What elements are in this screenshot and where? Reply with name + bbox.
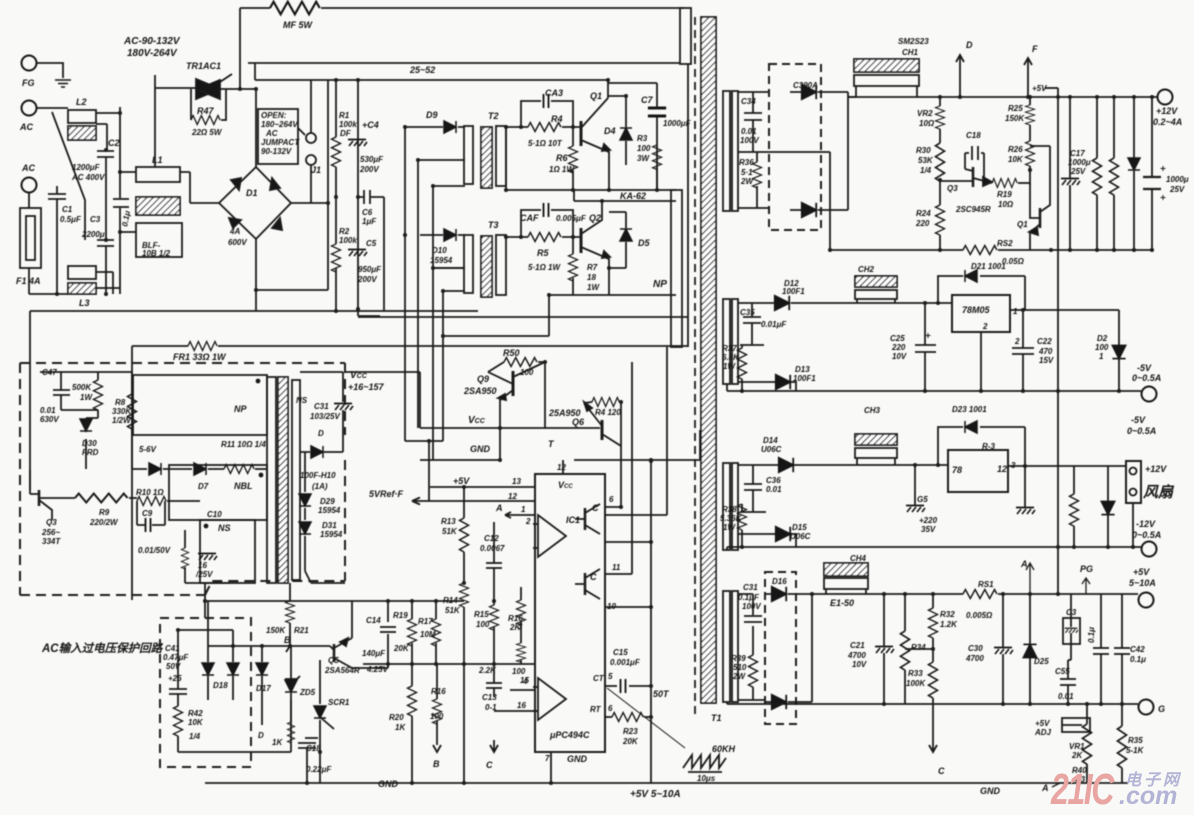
svg-text:R21: R21 (294, 626, 309, 635)
resistor R27 (1093, 97, 1102, 250)
wire S1 return tap (769, 152, 830, 250)
svg-text:2: 2 (982, 322, 988, 331)
svg-text:103/25V: 103/25V (310, 412, 340, 421)
rail S3 (855, 464, 948, 466)
svg-text:1W: 1W (723, 362, 736, 371)
resistor R38 (720, 504, 747, 547)
svg-text:FRD: FRD (82, 448, 99, 457)
resistor R50 (488, 348, 545, 377)
transformer T2 (464, 111, 506, 188)
svg-text:C31: C31 (743, 583, 758, 592)
resistor R2 (332, 197, 358, 311)
resistor R7 (569, 237, 601, 295)
junction nodes IC (176, 360, 653, 785)
wire Q5 emitter bus (352, 601, 388, 668)
diode D24 (1101, 466, 1114, 547)
svg-text:12: 12 (997, 464, 1007, 474)
svg-text:PG: PG (1080, 564, 1093, 574)
svg-text:RT: RT (590, 705, 602, 714)
svg-text:5·1Ω 10T: 5·1Ω 10T (528, 139, 563, 148)
svg-text:11: 11 (612, 563, 621, 572)
svg-text:51K: 51K (445, 606, 461, 615)
wire 5VRef pin12 (369, 489, 535, 505)
svg-text:+5V 5~10A: +5V 5~10A (630, 789, 681, 800)
svg-text:150K: 150K (1005, 114, 1025, 123)
svg-text:2: 2 (1014, 337, 1020, 346)
wire B node (208, 646, 290, 652)
svg-text:D: D (258, 731, 264, 740)
net F arrow (1024, 44, 1038, 97)
wire +5V pin13 (430, 477, 535, 487)
svg-text:10K: 10K (1008, 155, 1024, 164)
label -12V (1132, 519, 1161, 540)
winding S1 (723, 91, 738, 211)
resistor R33 (905, 649, 945, 776)
svg-text:2W: 2W (732, 672, 746, 681)
wire triac right (220, 8, 256, 89)
terminal -5V (1132, 363, 1161, 402)
svg-text:3: 3 (518, 622, 523, 631)
svg-text:+C4: +C4 (362, 120, 379, 130)
svg-text:D14: D14 (763, 436, 778, 445)
terminal AC line1 (19, 101, 37, 133)
diode D18b (227, 646, 239, 700)
svg-text:530μF: 530μF (360, 155, 384, 164)
svg-text:NP: NP (653, 279, 667, 290)
svg-text:R25: R25 (1008, 104, 1023, 113)
resistor R9 (56, 494, 137, 528)
svg-text:10V: 10V (852, 660, 867, 669)
net D arrow (956, 40, 973, 97)
svg-text:CH3: CH3 (864, 406, 881, 415)
svg-text:5·1Ω 1W: 5·1Ω 1W (528, 263, 561, 272)
net PG (1080, 564, 1093, 594)
diode S1 top (790, 85, 848, 99)
svg-text:1: 1 (521, 505, 526, 514)
svg-text:R26: R26 (1008, 145, 1023, 154)
rail S4 (824, 593, 1138, 595)
svg-text:D: D (318, 429, 324, 438)
wire FG to ground (36, 63, 63, 78)
capacitor C17 (1061, 97, 1091, 250)
svg-text:R17: R17 (418, 617, 433, 626)
resistor R4 (506, 114, 581, 148)
svg-text:20K: 20K (393, 644, 410, 653)
svg-text:CH2: CH2 (858, 265, 875, 274)
svg-text:C15: C15 (613, 648, 628, 657)
svg-text:C12: C12 (484, 534, 499, 543)
diode D5 (609, 212, 650, 268)
resistor R20 (389, 664, 417, 783)
wire y664 bus (363, 663, 535, 665)
jumper J1 terminals (298, 80, 321, 203)
svg-text:D7: D7 (198, 482, 209, 491)
svg-text:D31: D31 (322, 521, 337, 530)
svg-text:35V: 35V (921, 525, 936, 534)
svg-text:JUMPACT: JUMPACT (261, 138, 300, 147)
svg-text:Q1: Q1 (590, 91, 602, 101)
capacitor C14 (362, 601, 396, 664)
svg-text:T1: T1 (711, 713, 722, 723)
wire S1 join (848, 92, 856, 210)
wire bridge top (255, 89, 257, 167)
svg-text:R23: R23 (623, 727, 638, 736)
svg-text:C: C (592, 503, 599, 513)
svg-text:C22: C22 (1037, 337, 1052, 346)
svg-text:600V: 600V (228, 238, 247, 247)
regulator 78N12 (948, 442, 1016, 492)
svg-text:R34: R34 (911, 643, 926, 652)
svg-text:25V: 25V (1070, 167, 1086, 176)
choke CH3 (855, 406, 897, 465)
svg-text:R30: R30 (916, 146, 931, 155)
svg-text:GND: GND (470, 444, 491, 454)
transistor Q6 (548, 402, 621, 507)
svg-text:C: C (938, 766, 945, 776)
svg-text:500K: 500K (72, 383, 92, 392)
winding S2 (723, 299, 738, 384)
svg-text:25V: 25V (1169, 185, 1185, 194)
resistor R36 (738, 152, 769, 208)
svg-text:0.01: 0.01 (766, 485, 782, 494)
label Vcc +16~157 (348, 370, 385, 392)
svg-text:C34: C34 (741, 97, 756, 106)
svg-text:100: 100 (476, 620, 490, 629)
svg-text:SCR1: SCR1 (328, 698, 350, 707)
wire vertical x328 (256, 80, 328, 290)
capacitor C26b (1016, 466, 1035, 514)
winding S3 (723, 463, 738, 550)
svg-text:470: 470 (1038, 347, 1053, 356)
svg-text:C25: C25 (890, 334, 905, 343)
svg-text:+16~157: +16~157 (348, 382, 385, 392)
resistor R24 (915, 205, 945, 250)
svg-text:NS: NS (296, 396, 308, 405)
svg-text:R47: R47 (197, 106, 215, 116)
svg-text:+5V: +5V (453, 476, 470, 486)
zener D30 FRD (80, 418, 99, 469)
svg-text:50T: 50T (653, 689, 670, 699)
svg-text:6: 6 (608, 704, 613, 713)
svg-text:U06C: U06C (761, 445, 782, 454)
pointer line to sawtooth (607, 688, 685, 748)
svg-text:510: 510 (733, 663, 747, 672)
capacitor C34 (738, 92, 769, 152)
svg-text:1.2K: 1.2K (940, 620, 958, 629)
wire y601 bus (348, 600, 464, 602)
svg-text:T2: T2 (488, 111, 499, 121)
top box lower line (248, 62, 680, 64)
svg-text:100V: 100V (740, 136, 759, 145)
resistor 2.2K (478, 666, 497, 675)
transistor Q3b (940, 167, 992, 214)
svg-text:15: 15 (520, 676, 529, 685)
svg-text:0.01: 0.01 (1058, 692, 1074, 701)
resistor R32 (929, 594, 959, 662)
svg-text:R15: R15 (474, 610, 489, 619)
svg-text:A: A (495, 503, 503, 513)
svg-text:C1: C1 (62, 205, 73, 214)
svg-text:D23 1001: D23 1001 (952, 405, 987, 414)
svg-text:C5: C5 (366, 239, 377, 248)
capacitor C5 electrolytic (348, 239, 382, 284)
svg-text:R10 1Ω: R10 1Ω (136, 488, 164, 497)
junction nodes AC input (55, 78, 360, 313)
svg-text:C14: C14 (366, 616, 381, 625)
inductor L1 (136, 155, 182, 258)
svg-text:100: 100 (637, 144, 651, 153)
svg-text:GND: GND (378, 779, 399, 789)
capacitor C4 electrolytic (348, 120, 384, 174)
svg-text:C3: C3 (90, 215, 101, 224)
wire diagonal to C1 (52, 112, 85, 240)
transformer T1 core (701, 17, 716, 703)
svg-text:.com: .com (1119, 782, 1177, 810)
wire bus x1058 (1057, 88, 1059, 594)
winding NP aux (133, 375, 267, 435)
svg-text:ZD5: ZD5 (299, 688, 316, 697)
svg-text:R39: R39 (731, 654, 746, 663)
svg-text:0.0067: 0.0067 (480, 544, 505, 553)
svg-text:15954: 15954 (318, 506, 341, 515)
resistor R23 pin6 (590, 704, 651, 746)
diode S1 bottom (790, 203, 848, 217)
resistor R34 (901, 594, 927, 704)
wire Vcc top aux (300, 372, 420, 428)
wire x621 (620, 402, 622, 446)
svg-text:6.8K: 6.8K (722, 353, 740, 362)
diode D15 (738, 523, 811, 547)
svg-text:6: 6 (609, 495, 614, 504)
diode D21 loop (938, 262, 1025, 310)
capacitor CAF (520, 203, 587, 237)
svg-text:0.1μ: 0.1μ (1087, 627, 1096, 643)
svg-text:2200μ: 2200μ (81, 230, 105, 239)
svg-text:1W: 1W (723, 523, 736, 532)
resistor R21 (266, 583, 309, 646)
resistor R17 (418, 601, 441, 664)
wire y77 bus (467, 80, 657, 98)
comparator triangle 2 (533, 678, 566, 720)
transistor Q1b (1017, 146, 1050, 250)
svg-text:C7: C7 (641, 95, 653, 105)
svg-text:R42: R42 (188, 709, 203, 718)
svg-text:180~264V: 180~264V (261, 120, 298, 129)
svg-text:NP: NP (234, 404, 247, 414)
diode D23 loop (938, 405, 1025, 466)
svg-text:OPEN:: OPEN: (261, 111, 287, 120)
svg-text:VR2: VR2 (917, 109, 933, 118)
svg-text:7: 7 (545, 754, 550, 763)
capacitor C22 (1012, 310, 1054, 391)
wire T2 tap (418, 159, 465, 161)
zener D11 (1128, 97, 1140, 250)
wire vertical x120 (119, 107, 121, 294)
capacitor C31c (738, 583, 762, 640)
svg-text:1W: 1W (80, 393, 93, 402)
resistor R26 (1008, 141, 1035, 185)
svg-text:R35: R35 (1128, 736, 1143, 745)
junction nodes outputs (740, 95, 1154, 706)
svg-text:R5: R5 (537, 248, 549, 258)
terminal AC line2 (21, 163, 37, 193)
resistor VR2 (917, 97, 945, 143)
resistor FR1 (132, 342, 688, 601)
label +5V tap (1032, 84, 1058, 93)
svg-text:1000μ: 1000μ (1068, 158, 1091, 167)
terminal -12V (1142, 542, 1157, 557)
regulator 78M05 (952, 295, 1018, 332)
svg-text:L3: L3 (79, 298, 90, 308)
net A bottom (1041, 783, 1060, 793)
transformer T3 (464, 220, 506, 297)
svg-text:KA-62: KA-62 (620, 191, 646, 201)
svg-text:R9: R9 (99, 508, 110, 517)
svg-text:0.47μF: 0.47μF (163, 653, 189, 662)
svg-text:TR1AC1: TR1AC1 (186, 61, 221, 71)
diode D31 (299, 508, 345, 583)
svg-text:90-132V: 90-132V (261, 147, 292, 156)
secondary NS right (292, 380, 308, 580)
rail S2 return (727, 384, 1141, 391)
svg-text:R19: R19 (393, 611, 408, 620)
svg-text:2SC945R: 2SC945R (955, 205, 991, 214)
fan connector (1126, 461, 1175, 503)
resistor R3 (637, 134, 662, 190)
diode D aux (300, 420, 343, 491)
resistor R5 (506, 233, 581, 273)
svg-text:220: 220 (891, 343, 906, 352)
wire bridge left (190, 202, 219, 204)
svg-text:53K: 53K (918, 156, 934, 165)
capacitor CA3 (521, 88, 573, 127)
svg-text:A: A (1020, 559, 1028, 569)
svg-text:+12V: +12V (1156, 106, 1178, 116)
svg-text:3W: 3W (637, 154, 650, 163)
dashed box2 (160, 618, 251, 767)
resistor R19b (393, 601, 417, 664)
pin 6 wire (605, 347, 667, 515)
capacitor 0.1 on x120 (113, 199, 132, 227)
svg-text:R7: R7 (587, 263, 598, 272)
wire reg2 gnd (980, 332, 982, 391)
resistor R6 (549, 127, 578, 190)
svg-text:150K: 150K (266, 626, 286, 635)
comparator triangle 1 (533, 515, 566, 557)
wire reg1 out (1010, 309, 1119, 311)
wire Q9 collector bus (544, 362, 546, 428)
junction nodes driver (403, 78, 659, 443)
capacitor C3 box (1063, 594, 1080, 660)
svg-text:D16: D16 (772, 577, 787, 586)
svg-text:+5V: +5V (1035, 719, 1050, 728)
svg-text:4.25V: 4.25V (366, 665, 389, 674)
svg-text:AC: AC (21, 163, 35, 173)
svg-text:AC输入过电压保护回路: AC输入过电压保护回路 (41, 642, 164, 655)
svg-text:15954: 15954 (320, 530, 343, 539)
capacitor C18b (298, 738, 332, 783)
PWM IC1 uPC494C (535, 460, 605, 752)
svg-text:10V: 10V (892, 352, 907, 361)
capacitor C47 (40, 368, 70, 424)
svg-text:MF 5W: MF 5W (283, 20, 314, 30)
wire L1 connections (120, 172, 190, 232)
svg-text:D1: D1 (246, 188, 258, 198)
svg-text:D17: D17 (256, 684, 271, 693)
svg-text:100k: 100k (339, 120, 357, 129)
svg-text:AC 400V: AC 400V (71, 173, 105, 182)
terminal G (1139, 700, 1166, 715)
choke CH1 (854, 37, 929, 97)
aux transformer core (267, 377, 288, 583)
svg-text:51K: 51K (442, 527, 458, 536)
diode D17 (256, 646, 271, 740)
capacitor C41 (163, 630, 189, 706)
capacitor C2 (71, 138, 120, 240)
svg-text:D4: D4 (604, 126, 616, 136)
svg-text:Q6: Q6 (572, 417, 585, 427)
capacitor C21 (847, 594, 894, 704)
winding NS aux (200, 520, 255, 583)
resistor R47 (191, 89, 226, 137)
svg-text:NS: NS (218, 523, 231, 533)
svg-text:21IC: 21IC (1050, 765, 1115, 814)
wire B bus to Q5 (290, 645, 330, 647)
svg-text:200V: 200V (359, 165, 379, 174)
svg-text:E1-50: E1-50 (830, 598, 854, 608)
svg-text:J1: J1 (311, 165, 321, 175)
resistor R1 (332, 80, 358, 197)
svg-text:5·1: 5·1 (741, 168, 753, 177)
svg-text:13: 13 (512, 477, 521, 486)
svg-text:950μF: 950μF (358, 265, 382, 274)
svg-text:T3: T3 (488, 220, 499, 230)
capacitor C7 (641, 83, 692, 190)
svg-text:R8: R8 (115, 398, 126, 407)
capacitor C15 pin5 (593, 648, 670, 699)
wire R26 to Q1 loop (1030, 145, 1050, 147)
capacitor C36 (740, 465, 782, 512)
wire AC1 to L2 (36, 107, 68, 109)
svg-text:334T: 334T (42, 537, 61, 546)
resistor R14 (443, 583, 469, 783)
svg-text:C: C (486, 760, 493, 770)
svg-text:D: D (966, 40, 973, 50)
fuse F1 (16, 193, 41, 294)
svg-text:C35: C35 (740, 308, 755, 317)
svg-text:CT: CT (593, 674, 605, 683)
svg-text:12: 12 (557, 463, 566, 472)
capacitor C18 (965, 131, 984, 183)
svg-text:R2: R2 (339, 227, 350, 236)
svg-text:100k: 100k (339, 236, 357, 245)
terminal +5V (1129, 567, 1156, 608)
svg-text:+5V: +5V (1032, 84, 1047, 93)
resistor R28 (1110, 97, 1119, 250)
svg-text:0.01μF: 0.01μF (761, 320, 787, 329)
wire T2T3 returns (405, 127, 465, 501)
output transistor A (575, 503, 600, 534)
wire reg3 out (1008, 465, 1126, 467)
svg-text:0.005Ω: 0.005Ω (966, 611, 993, 620)
wire pin1 A (495, 503, 535, 526)
svg-text:R4 120: R4 120 (595, 408, 621, 417)
svg-text:0.2~4A: 0.2~4A (1153, 117, 1182, 127)
svg-text:78: 78 (952, 465, 962, 475)
svg-text:F: F (1032, 44, 1038, 54)
svg-text:630V: 630V (40, 415, 59, 424)
svg-text:256~: 256~ (41, 528, 60, 537)
